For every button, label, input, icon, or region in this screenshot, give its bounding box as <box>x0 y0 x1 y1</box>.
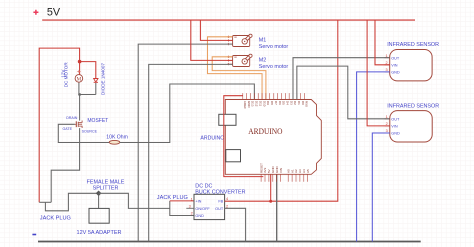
wire M2 signal (orange) <box>212 57 266 100</box>
wire motor + feed <box>79 62 81 75</box>
wire 5V rail <box>42 19 415 21</box>
svg-text:INFRARED SENSOR: INFRARED SENSOR <box>387 103 439 109</box>
wire IR1 VIN from 5V rail <box>375 20 390 65</box>
wire ground rail <box>38 241 421 243</box>
wire M2 GND (grey) <box>149 64 233 241</box>
svg-text:OUT: OUT <box>215 207 224 211</box>
svg-text:5V: 5V <box>47 6 61 18</box>
wire jack plug + to motor (red loop) <box>39 48 79 202</box>
wire arduino aux red (left loop to 5V pin) <box>224 96 263 177</box>
converter U2 DC DC BUCK CONVERTER box <box>194 194 225 219</box>
svg-text:+IN: +IN <box>195 200 201 204</box>
svg-text:OUT: OUT <box>391 117 400 121</box>
svg-text:ARDUINO: ARDUINO <box>248 126 282 136</box>
svg-text:JACK PLUG: JACK PLUG <box>157 195 188 201</box>
servo M1 pin stubs <box>227 37 232 44</box>
node FEMALE MALE SPLITTER junction <box>96 190 102 196</box>
wire IR2 GND to ground rail <box>372 133 390 242</box>
wire arduino GND pin to ground rail <box>276 174 278 241</box>
svg-text:D8: D8 <box>270 101 274 105</box>
wire IR2 OUT to arduino <box>297 66 390 119</box>
svg-text:D10: D10 <box>262 101 266 107</box>
arduino power jack <box>226 150 241 162</box>
op board U1 ARDUINO outline <box>225 100 321 175</box>
wire motor node to MOSFET drain <box>79 95 81 121</box>
wire IR2 VIN from 5V rail <box>367 20 390 126</box>
diode D1 1N4007 symbol <box>94 79 98 83</box>
svg-text:Servo motor: Servo motor <box>259 64 289 70</box>
svg-text:D0: D0 <box>301 101 305 105</box>
jack plug J1 body <box>39 201 51 203</box>
svg-text:RX0: RX0 <box>305 101 309 107</box>
svg-text:M2: M2 <box>259 58 267 64</box>
power supply 12V 5A ADAPTER box <box>89 208 109 223</box>
svg-text:D7: D7 <box>274 101 278 105</box>
sensor IR1 INFRARED SENSOR box <box>390 50 432 81</box>
svg-text:4: 4 <box>226 197 228 201</box>
arduino USB connector <box>219 114 236 125</box>
wire buck FB to VIN rail <box>225 20 338 201</box>
svg-text:INFRARED SENSOR: INFRARED SENSOR <box>387 42 439 48</box>
svg-text:VIN: VIN <box>391 63 398 67</box>
svg-text:GATE: GATE <box>63 127 73 131</box>
svg-text:D2: D2 <box>293 101 297 105</box>
svg-text:VIN: VIN <box>391 125 398 129</box>
svg-text:GND: GND <box>391 132 400 136</box>
wire arduino VIN pin down <box>270 174 272 201</box>
svg-text:D4: D4 <box>286 101 290 105</box>
jack plug J2 body <box>170 201 194 216</box>
wire M1 GND (grey) <box>138 44 232 241</box>
arduino bottom pin headers <box>261 174 308 181</box>
arduino top pin headers <box>243 93 305 99</box>
wire motor - to diode - <box>79 82 96 94</box>
svg-text:10K Ohm: 10K Ohm <box>106 135 128 141</box>
wire splitter to middle jack plug <box>99 193 170 208</box>
svg-text:GND: GND <box>247 101 251 109</box>
wire jack plug J2 + to buck +IN (red) <box>170 200 194 202</box>
junction VIN node <box>269 200 272 203</box>
svg-text:M1: M1 <box>259 38 267 44</box>
svg-text:AREF: AREF <box>243 101 247 109</box>
svg-text:FB: FB <box>218 200 223 204</box>
svg-text:ON/OFF: ON/OFF <box>195 207 210 211</box>
node minus symbol <box>32 234 36 236</box>
svg-text:M: M <box>77 77 82 83</box>
servo motor M2 symbol <box>233 54 252 66</box>
svg-text:JACK PLUG: JACK PLUG <box>40 215 71 221</box>
svg-text:MOSFET: MOSFET <box>87 118 108 124</box>
svg-text:D3: D3 <box>289 101 293 105</box>
svg-text:OUT: OUT <box>391 56 400 60</box>
wire M2 5V (red) <box>191 20 233 60</box>
svg-text:D1: D1 <box>297 101 301 105</box>
pin 3 ON/OFF stub <box>186 207 194 209</box>
svg-text:ARDUINO: ARDUINO <box>200 136 224 142</box>
svg-text:DC MOTOR: DC MOTOR <box>64 62 69 88</box>
wire MOSFET gate loop <box>58 124 109 142</box>
sensor IR1 pin stubs and numbers <box>385 58 390 72</box>
wire resistor to arduino D pin <box>120 84 255 143</box>
svg-text:SOURCE: SOURCE <box>82 130 98 134</box>
transistor Q1 MOSFET symbol <box>75 121 77 127</box>
resistor R1 10K Ohm <box>109 140 120 144</box>
wire IR1 GND to ground rail <box>357 72 390 242</box>
svg-text:GND: GND <box>195 214 204 218</box>
svg-text:GND: GND <box>391 71 400 75</box>
wire IR1 OUT to arduino <box>293 58 390 100</box>
node +5V plus symbol <box>33 10 38 15</box>
svg-text:A5: A5 <box>306 169 310 173</box>
svg-text:SPLITTER: SPLITTER <box>93 186 119 192</box>
svg-text:2: 2 <box>191 212 193 216</box>
svg-text:12V 5A ADAPTER: 12V 5A ADAPTER <box>77 230 122 236</box>
junction motor bottom <box>78 93 81 96</box>
svg-text:DIODE 1N4007: DIODE 1N4007 <box>100 63 105 95</box>
svg-text:1: 1 <box>191 197 193 201</box>
svg-text:D9: D9 <box>266 101 270 105</box>
wire M1 signal (orange) <box>208 37 263 100</box>
motor + terminal mark <box>77 70 80 73</box>
wire diode branch <box>80 62 96 79</box>
sensor IR2 pin stubs and numbers <box>385 119 390 133</box>
wire splitter to adapter <box>98 195 100 208</box>
junction motor/diode node <box>78 60 82 64</box>
svg-text:3: 3 <box>189 204 191 208</box>
svg-text:DRAIN: DRAIN <box>66 116 78 120</box>
svg-text:VIN: VIN <box>279 168 283 173</box>
svg-text:D6: D6 <box>278 101 282 105</box>
servo motor M1 symbol <box>233 34 252 46</box>
sensor IR2 INFRARED SENSOR box <box>390 111 432 142</box>
wire buck OUT to ground rail <box>225 208 246 241</box>
svg-text:D13: D13 <box>251 101 255 107</box>
wire MOSFET source down to jack plug <box>51 128 79 202</box>
svg-text:D11: D11 <box>258 101 262 107</box>
wire jack plug J1 tap to splitter <box>45 193 98 211</box>
motor M1 12V DC MOTOR symbol <box>75 75 83 83</box>
svg-text:Servo motor: Servo motor <box>259 44 289 50</box>
servo M2 pin stubs <box>227 57 232 64</box>
svg-text:BUCK CONVERTER: BUCK CONVERTER <box>195 189 245 195</box>
svg-text:D12: D12 <box>255 101 259 107</box>
svg-text:D5: D5 <box>282 101 286 105</box>
wire M1 5V (red) <box>200 20 232 40</box>
